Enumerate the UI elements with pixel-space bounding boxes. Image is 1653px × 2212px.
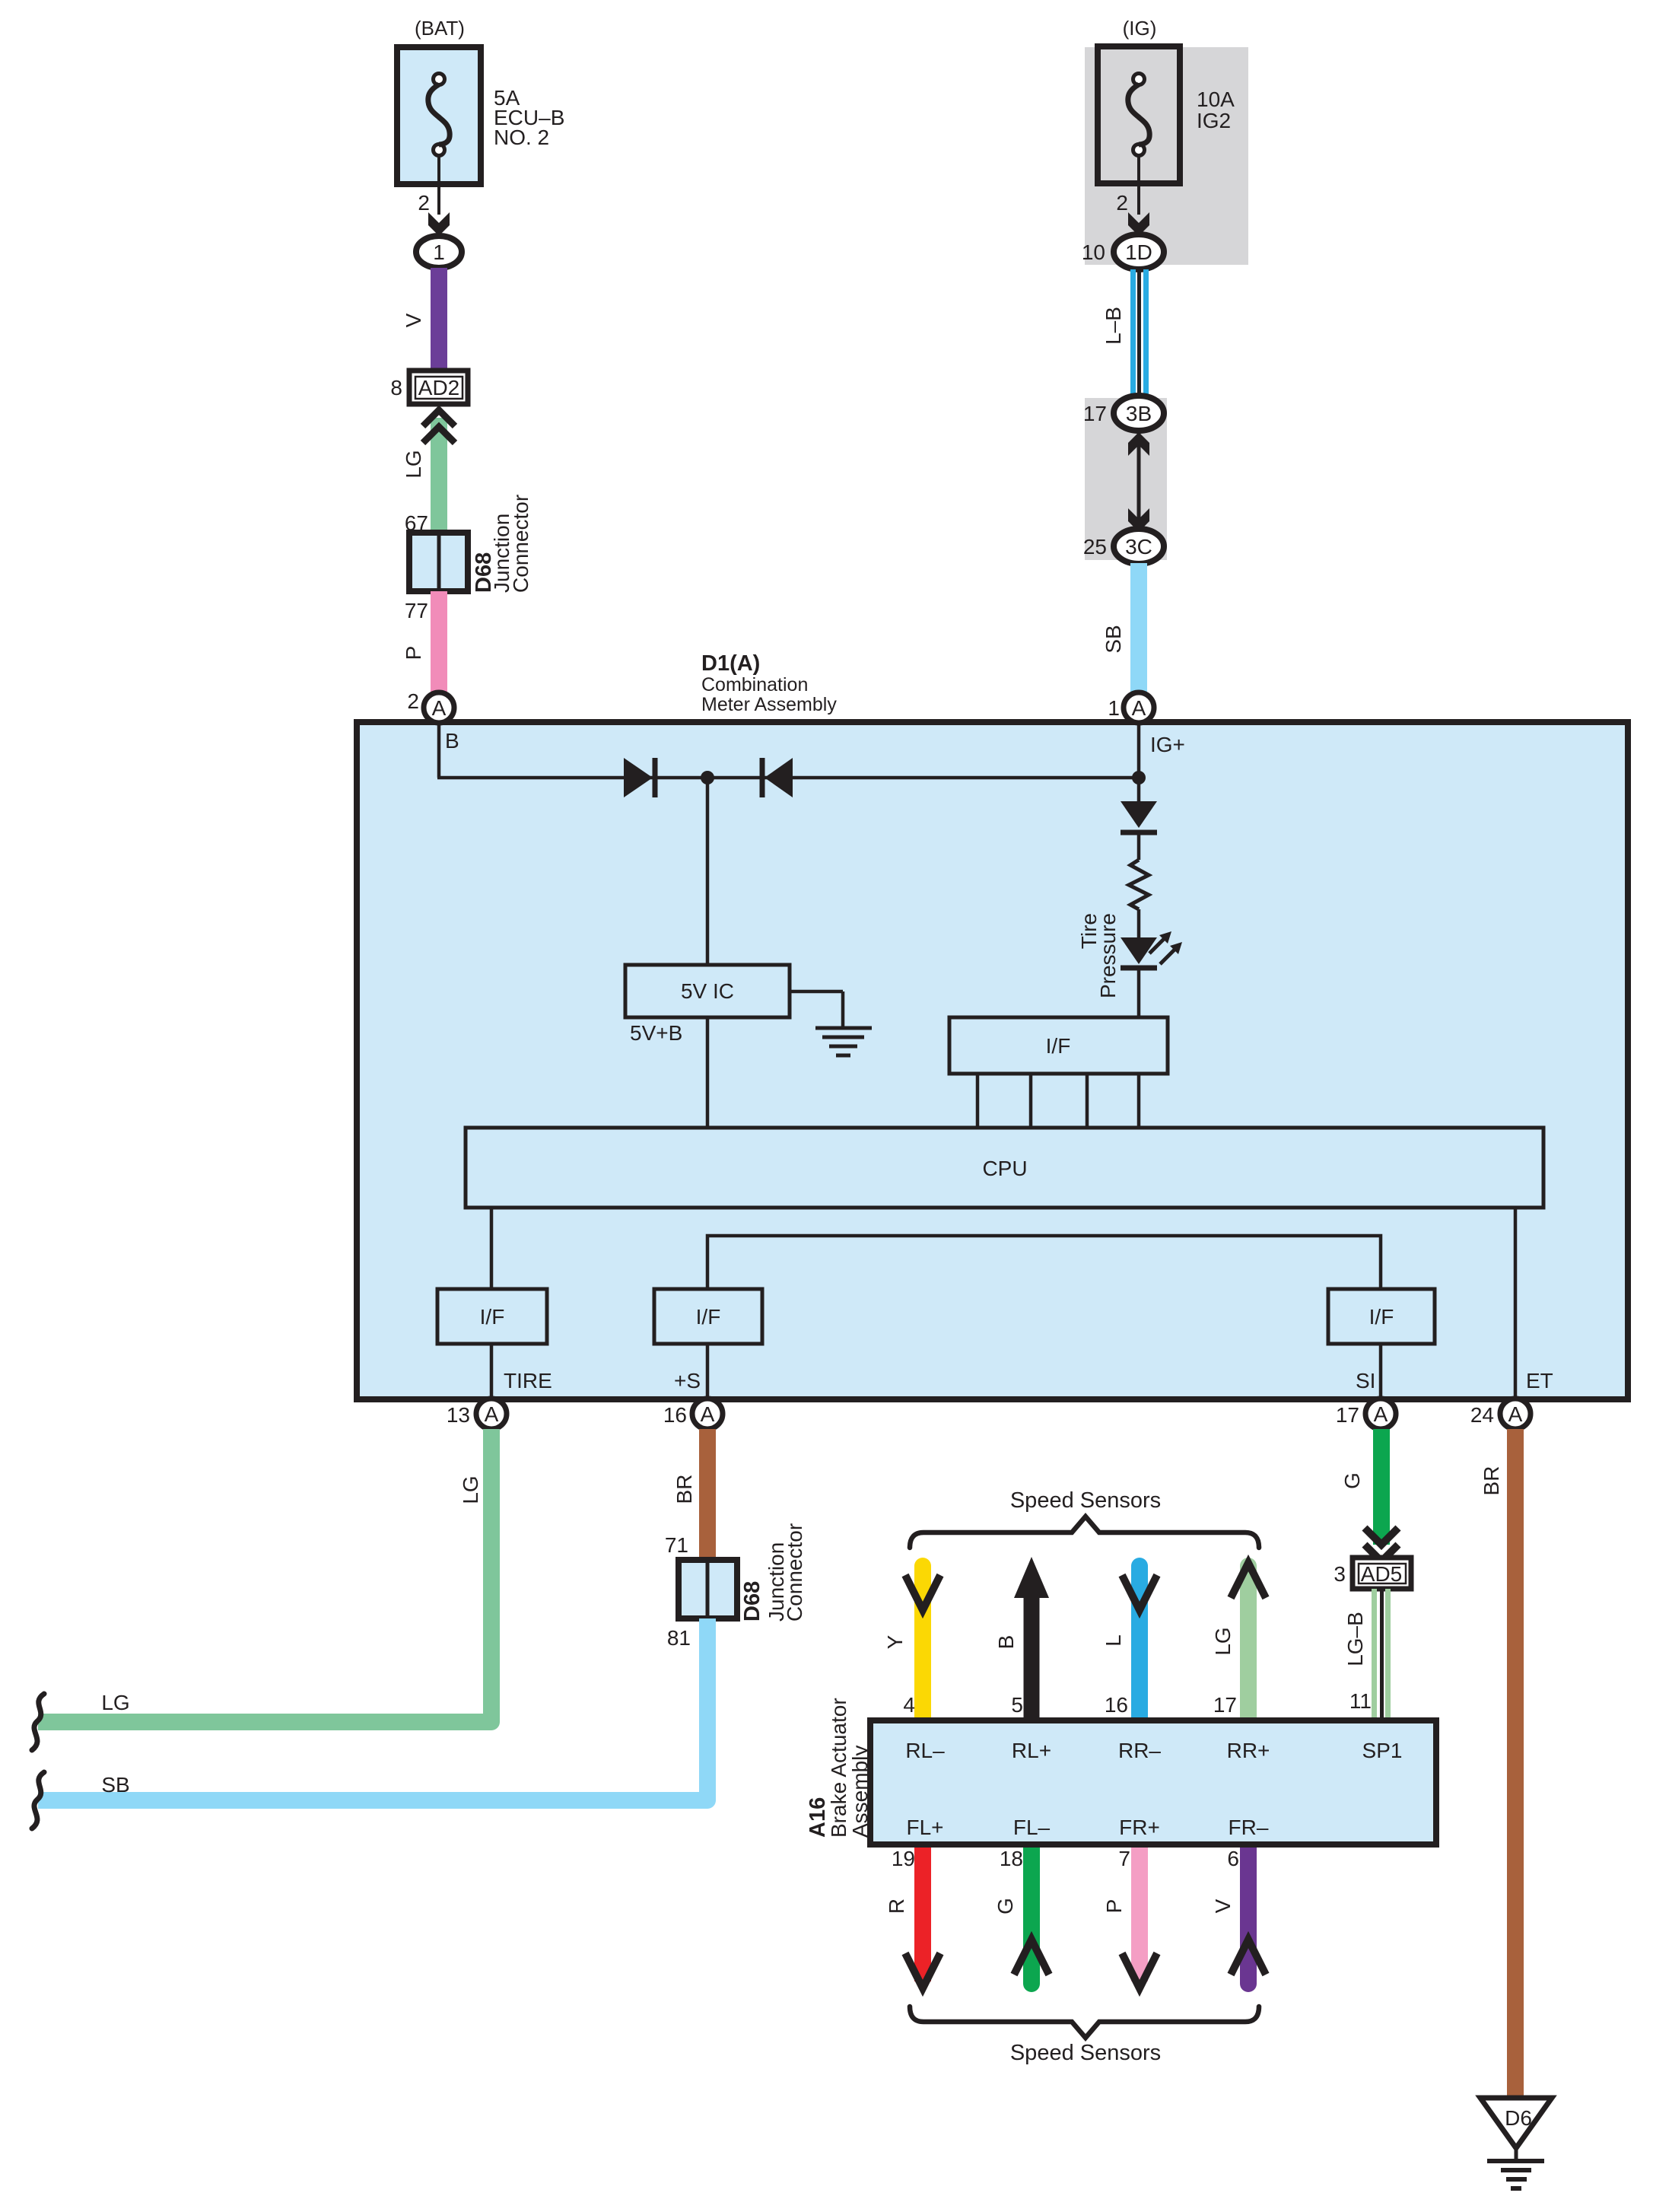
svg-text:BR: BR: [672, 1475, 696, 1504]
svg-text:RL+: RL+: [1012, 1739, 1051, 1762]
svg-text:Combination: Combination: [701, 674, 808, 695]
svg-text:G: G: [1340, 1472, 1364, 1489]
svg-text:Pressure: Pressure: [1096, 913, 1120, 998]
svg-text:25: 25: [1083, 535, 1107, 559]
svg-text:17: 17: [1083, 402, 1107, 425]
svg-text:LG: LG: [101, 1691, 129, 1714]
svg-text:24: 24: [1470, 1403, 1494, 1427]
svg-text:17: 17: [1336, 1403, 1359, 1427]
svg-text:16: 16: [663, 1403, 687, 1427]
svg-text:B: B: [445, 729, 459, 753]
svg-text:1D: 1D: [1125, 240, 1152, 264]
svg-text:18: 18: [1000, 1847, 1023, 1870]
svg-text:D68: D68: [740, 1581, 765, 1622]
svg-text:10A: 10A: [1197, 88, 1235, 111]
svg-text:V: V: [1211, 1899, 1235, 1913]
svg-text:L–B: L–B: [1101, 307, 1125, 345]
svg-text:2: 2: [1116, 191, 1128, 215]
svg-text:11: 11: [1349, 1689, 1372, 1713]
svg-text:Assembly: Assembly: [848, 1746, 872, 1838]
svg-text:3B: 3B: [1126, 402, 1152, 425]
svg-text:I/F: I/F: [1369, 1305, 1394, 1329]
svg-text:LG: LG: [459, 1475, 482, 1504]
svg-text:TIRE: TIRE: [504, 1369, 552, 1392]
svg-text:Connector: Connector: [509, 495, 532, 593]
svg-text:SB: SB: [101, 1773, 129, 1797]
svg-text:AD2: AD2: [418, 376, 459, 399]
svg-text:SB: SB: [1101, 625, 1125, 653]
svg-text:Y: Y: [883, 1634, 907, 1649]
svg-text:RR–: RR–: [1118, 1739, 1161, 1762]
svg-text:V: V: [402, 313, 425, 327]
svg-text:Speed Sensors: Speed Sensors: [1010, 1488, 1161, 1513]
svg-text:FL+: FL+: [906, 1816, 943, 1839]
svg-text:I/F: I/F: [480, 1305, 505, 1329]
svg-text:5V IC: 5V IC: [681, 979, 734, 1003]
svg-text:NO. 2: NO. 2: [494, 126, 549, 149]
svg-text:BR: BR: [1480, 1466, 1503, 1496]
svg-text:Brake Actuator: Brake Actuator: [827, 1698, 850, 1838]
svg-text:ET: ET: [1526, 1369, 1553, 1392]
svg-text:3: 3: [1334, 1562, 1346, 1586]
svg-text:71: 71: [665, 1533, 688, 1557]
svg-text:B: B: [994, 1635, 1018, 1650]
svg-text:2: 2: [418, 191, 430, 215]
svg-text:2: 2: [407, 689, 419, 713]
svg-text:4: 4: [903, 1693, 915, 1717]
svg-text:Speed Sensors: Speed Sensors: [1010, 2041, 1161, 2065]
svg-text:(BAT): (BAT): [415, 17, 465, 40]
svg-text:17: 17: [1213, 1693, 1237, 1717]
svg-text:IG+: IG+: [1150, 733, 1185, 756]
svg-text:CPU: CPU: [982, 1157, 1027, 1180]
svg-text:IG2: IG2: [1197, 109, 1231, 132]
svg-text:13: 13: [447, 1403, 470, 1427]
svg-text:P: P: [1102, 1899, 1126, 1914]
svg-text:RL–: RL–: [905, 1739, 945, 1762]
svg-text:AD5: AD5: [1361, 1562, 1402, 1586]
svg-text:Connector: Connector: [783, 1523, 806, 1622]
svg-text:RR+: RR+: [1227, 1739, 1270, 1762]
svg-text:SI: SI: [1356, 1369, 1375, 1392]
svg-text:I/F: I/F: [696, 1305, 721, 1329]
svg-text:5V+B: 5V+B: [630, 1021, 682, 1045]
svg-text:P: P: [402, 646, 425, 660]
svg-text:5: 5: [1011, 1693, 1023, 1717]
svg-text:19: 19: [892, 1847, 915, 1870]
svg-text:LG: LG: [1211, 1627, 1235, 1655]
svg-text:L: L: [1101, 1634, 1125, 1647]
svg-text:I/F: I/F: [1046, 1034, 1071, 1058]
svg-text:LG: LG: [402, 450, 425, 478]
svg-text:+S: +S: [674, 1369, 701, 1392]
svg-text:3C: 3C: [1125, 535, 1152, 559]
svg-text:LG–B: LG–B: [1343, 1612, 1367, 1666]
svg-text:FR–: FR–: [1229, 1816, 1269, 1839]
svg-text:10: 10: [1082, 240, 1105, 264]
svg-text:6: 6: [1227, 1847, 1239, 1870]
svg-text:8: 8: [390, 376, 402, 399]
svg-text:FR+: FR+: [1119, 1816, 1160, 1839]
svg-text:R: R: [885, 1899, 908, 1914]
svg-text:FL–: FL–: [1013, 1816, 1051, 1839]
svg-text:81: 81: [667, 1626, 691, 1650]
svg-text:G: G: [993, 1898, 1017, 1914]
svg-text:1: 1: [1108, 696, 1120, 720]
svg-text:SP1: SP1: [1362, 1739, 1403, 1762]
svg-text:D1(A): D1(A): [701, 651, 760, 676]
svg-text:D6: D6: [1505, 2106, 1532, 2130]
svg-text:Meter Assembly: Meter Assembly: [701, 694, 837, 715]
svg-text:77: 77: [405, 599, 428, 622]
svg-text:7: 7: [1118, 1847, 1130, 1870]
svg-text:1: 1: [433, 240, 445, 264]
svg-text:16: 16: [1105, 1693, 1128, 1717]
svg-text:(IG): (IG): [1123, 17, 1157, 40]
